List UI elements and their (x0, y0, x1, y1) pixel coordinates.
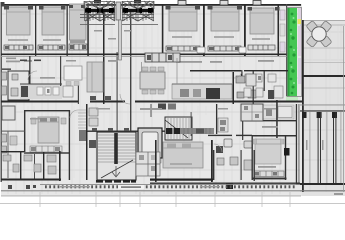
label quarto 6 (252, 38, 270, 40)
left bathroom box (8, 71, 29, 100)
label quarto 5 (214, 36, 234, 38)
main stair upper (165, 117, 192, 140)
far right bed label (258, 166, 276, 168)
corridor duct (119, 20, 122, 60)
hall wall y133 (208, 135, 232, 136)
corridor items x278-287 (280, 10, 285, 20)
kitchen cabinets row top center (145, 53, 180, 62)
sala wall x191 (191, 112, 192, 136)
label quarto 2 (43, 39, 61, 41)
left unit living wall x86 (86, 104, 88, 180)
elevator (138, 128, 162, 163)
kitchen appliances left (21, 86, 28, 97)
shower box right bathroom (246, 74, 256, 86)
kitchen block upper right unit (241, 104, 263, 121)
right bathroom enclosure wall (254, 150, 255, 181)
pergola hatch right (122, 0, 154, 21)
floor slab main apartment area (1, 4, 302, 196)
closet room 6 (248, 45, 275, 50)
bedroom divider wall x162 (162, 4, 164, 56)
vent box room 6 (253, 1, 261, 6)
bedroom divider wall x36 (35, 4, 36, 56)
bedroom divider wall x245 (244, 4, 246, 56)
closet room 2 (38, 45, 65, 50)
door threshold boxes (197, 47, 205, 53)
counter bits above stair (158, 104, 166, 110)
washer top-left (2, 106, 15, 120)
far right closet (254, 171, 284, 177)
kitchen cabinet drop line (141, 62, 143, 72)
pergola frame lines (80, 1, 158, 25)
far right unit separation wall (276, 100, 278, 138)
dark counter band above bedroom (166, 128, 214, 134)
bed room 3 (69, 4, 86, 43)
label quarto 4 (172, 36, 192, 38)
small wc center-right (216, 104, 217, 134)
bedroom divider wall x86 (87, 4, 89, 56)
laundry boxes right of wall (89, 108, 98, 116)
far right unit walls (244, 70, 288, 71)
left unit partition wall (29, 56, 30, 86)
bathroom fixtures row (3, 155, 56, 174)
round table (306, 21, 332, 48)
right kitchen counter (172, 84, 232, 99)
right bathroom fixtures (236, 76, 256, 98)
yellow marker (298, 19, 302, 24)
faint verticals below (40, 192, 290, 207)
corner vent box (1, 2, 5, 7)
dimension arrows (20, 60, 27, 62)
unit wall x103 (103, 10, 105, 104)
right terrace slab (302, 20, 345, 196)
bottom wall of bedroom band (1, 54, 287, 56)
right kitchen appliances (180, 88, 220, 99)
kitchen grid center bottom (136, 152, 160, 176)
far right bedroom walls (252, 135, 297, 180)
dining table right unit (140, 67, 165, 94)
pale green cap bottom (286, 96, 298, 101)
bed room 6 (248, 7, 280, 34)
door swing arcs (28, 70, 242, 152)
stair bottom wall (96, 180, 136, 183)
cozinha label (262, 126, 278, 128)
secondary stair (97, 132, 136, 180)
vent box room 4 (178, 1, 186, 6)
cozinha label (40, 77, 55, 79)
living wall above stair (86, 131, 172, 132)
right edge dimension line (343, 26, 345, 192)
center bedroom (155, 140, 213, 182)
extra floor stripes (6, 6, 338, 178)
floor board texture vertical lines (8, 6, 341, 194)
master closet (30, 146, 62, 152)
kitchen column line right unit (176, 58, 178, 84)
far right bed (255, 139, 281, 164)
master bed (38, 117, 59, 143)
corridor wall x296 (296, 104, 297, 183)
chimney between pergolas (116, 2, 121, 20)
outer wall right x287 (286, 4, 287, 102)
pink strip right of planter (298, 8, 302, 19)
sala wall stub (151, 104, 152, 117)
bathroom row walls (1, 151, 61, 181)
master bedroom walls (24, 110, 70, 180)
fridge (63, 86, 73, 97)
left unit wall x60 (60, 56, 61, 86)
bed room 2 (39, 6, 66, 35)
dark fixture by stair (89, 140, 96, 148)
left kitchen counter (20, 84, 62, 99)
right small bathroom (213, 139, 252, 189)
left bathroom fixtures (11, 74, 18, 96)
far right unit fixtures (244, 74, 283, 98)
closet room 4 (166, 46, 200, 51)
far right counter band (263, 105, 294, 119)
left unit wall stub (2, 69, 11, 70)
tiny dimension text specks (30, 30, 324, 188)
shaft black square (284, 148, 290, 156)
vent box room 5 (220, 1, 228, 6)
left unit sitting table (64, 66, 82, 80)
closet room 3 (69, 44, 87, 50)
bed room 1 (4, 6, 33, 35)
pergola hatch left (80, 0, 115, 21)
mid band bottom wall (1, 101, 78, 103)
toilet left edge (2, 134, 7, 153)
shaft wall x117 (117, 52, 118, 131)
center bedroom bottom wall (150, 179, 213, 181)
right bathroom wall (233, 72, 235, 104)
apto labels row (6, 58, 274, 63)
bed room 5 (208, 6, 243, 31)
corridor wall segment x242 (242, 104, 243, 140)
terrace edge line (300, 24, 345, 26)
label quarto 1 (8, 39, 28, 41)
right unit inner wall horizontal (190, 70, 242, 72)
top exterior wall (1, 4, 301, 6)
bedroom divider wall x64 (67, 4, 68, 56)
planter outline (287, 8, 302, 97)
small bath fixtures left wall (2, 72, 7, 95)
corridor wall x278 (278, 4, 280, 56)
left exterior wall (1, 4, 2, 182)
bed room 4 (166, 6, 201, 31)
bedroom divider wall x204 (203, 4, 205, 56)
closet room 5 (208, 46, 241, 51)
corridor shelf ladder left unit (78, 110, 86, 128)
shaft wall x130 (130, 12, 131, 131)
master bedroom bottom wall (24, 152, 70, 153)
sofa unit left-center (87, 62, 103, 92)
closet room 1 (4, 45, 33, 50)
left strip walls (1, 131, 25, 132)
far right hall wall (245, 120, 296, 121)
